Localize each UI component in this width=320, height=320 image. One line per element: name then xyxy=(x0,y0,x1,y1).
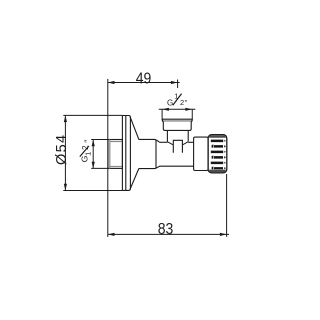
svg-text:″: ″ xyxy=(83,140,93,143)
knob outline xyxy=(208,135,227,173)
svg-text:2: 2 xyxy=(81,145,90,150)
dimension 49 xyxy=(108,80,180,89)
svg-text:″: ″ xyxy=(185,100,188,107)
svg-text:2: 2 xyxy=(180,98,184,107)
dimension 83 xyxy=(108,233,229,236)
knob top band xyxy=(209,135,226,137)
svg-text:Ø54: Ø54 xyxy=(54,134,70,165)
knob bottom band xyxy=(209,170,226,173)
right extension line (knob end) xyxy=(226,174,228,237)
knob knurl bars xyxy=(211,140,226,170)
svg-text:G: G xyxy=(167,98,173,107)
bonnet xyxy=(194,137,209,170)
dimension G1/2 left extension lines xyxy=(91,139,108,141)
wall thread G1/2 xyxy=(108,140,122,169)
svg-text:83: 83 xyxy=(158,221,174,238)
inlet neck xyxy=(166,130,168,142)
inlet thread extension lines xyxy=(161,109,163,120)
inlet thread block xyxy=(162,118,192,120)
svg-text:1: 1 xyxy=(83,152,92,156)
bell cone xyxy=(130,117,139,140)
dimension O54 xyxy=(64,115,67,190)
valve body xyxy=(160,142,194,166)
seat tab inside body xyxy=(168,140,188,153)
body chamfers xyxy=(156,140,160,143)
dimension G1/2 left xyxy=(92,140,95,169)
dimension G1/2 top xyxy=(159,108,196,111)
dimension O54 extension lines xyxy=(63,114,122,116)
flange plate xyxy=(122,116,130,191)
neck ring xyxy=(139,139,156,168)
svg-text:49: 49 xyxy=(136,70,152,87)
label G1/2 left (rotated) xyxy=(79,140,92,163)
wire: left extension line (wall face) xyxy=(107,79,109,237)
label G1/2 top xyxy=(167,92,188,108)
